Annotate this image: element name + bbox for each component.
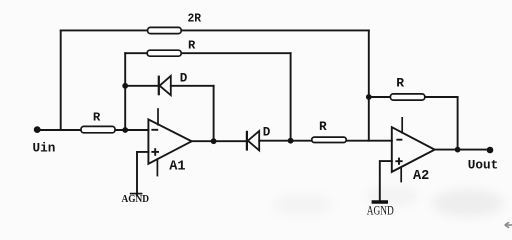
node: A2 output junction (455, 147, 461, 153)
ground AGND (A1) (130, 193, 143, 195)
resistor R (A2 feedback) (390, 94, 424, 100)
op-amp A2 (392, 117, 435, 182)
wire: feedback R horizontal run (125, 52, 290, 54)
node: A1 inverting input junction (122, 127, 128, 133)
wire: left vertical from Uin line up to 2R run (60, 30, 62, 130)
wire: diode D1 branch vertical down to A1 output (213, 86, 215, 141)
resistor R (series to A2) (312, 137, 346, 142)
node: 2R / A2 feedback junction (366, 94, 372, 100)
svg-text:AGND: AGND (367, 204, 394, 218)
node: A1 output junction (211, 138, 217, 144)
svg-text:2R: 2R (188, 11, 202, 25)
svg-text:D: D (263, 126, 271, 140)
wire: A2 non-inverting input (380, 161, 392, 201)
wire: A2 output to Uout (435, 149, 491, 151)
resistor 2R (outer feedback) (148, 27, 182, 33)
wire: diode D1 branch left segment (125, 85, 158, 87)
wire: 2R top horizontal run (61, 29, 369, 31)
decorative gray arrow bottom right (505, 222, 512, 228)
wire: top-right R horizontal run (369, 96, 458, 98)
node: diode branch junction (122, 83, 128, 89)
diode D2 (247, 131, 259, 151)
svg-text:R: R (319, 119, 327, 134)
svg-text:R: R (188, 39, 196, 53)
svg-text:R: R (396, 76, 404, 91)
node: diode D2 output junction (288, 138, 294, 144)
wire: Uin horizontal to A1 inverting input (37, 129, 149, 131)
resistor R (A1 feedback) (147, 50, 181, 56)
wire: diode D2 to A2 inverting input (259, 140, 392, 142)
svg-text:A1: A1 (169, 159, 185, 174)
svg-text:A2: A2 (413, 169, 429, 184)
ground AGND (A2) (372, 200, 388, 203)
wire: A1 output to diode D2 (192, 140, 247, 142)
svg-text:D: D (180, 72, 188, 86)
svg-text:Uin: Uin (33, 141, 56, 156)
wire: feedback vertical down to diode output node (290, 53, 292, 141)
node: Uout terminal (487, 147, 494, 154)
wire: top-right R vertical down to A2 output (457, 97, 459, 150)
wire: A1 inverting node vertical (124, 53, 126, 130)
wire: A1 non-inverting input (137, 152, 149, 196)
wire: diode D1 branch right segment (171, 85, 214, 87)
op-amp A1 (148, 108, 191, 176)
svg-text:Uout: Uout (468, 158, 498, 173)
wire: right vertical from 2R run down to A2 input line (368, 30, 370, 140)
diode D1 (159, 76, 171, 96)
node: Uin terminal (34, 126, 41, 133)
svg-text:R: R (93, 110, 101, 124)
svg-text:AGND: AGND (122, 194, 150, 205)
resistor R input (Uin series R) (81, 126, 115, 132)
